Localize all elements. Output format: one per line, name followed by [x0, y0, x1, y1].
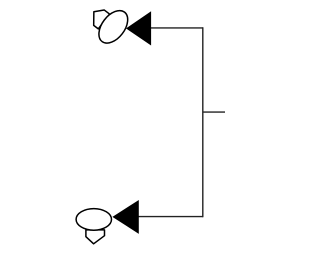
buzzer LS1 (top) horn body, rotated [83, 0, 134, 48]
buzzer LS2 (bottom) horn body [76, 209, 111, 244]
triangle driver of LS2 (bottom) [113, 201, 138, 233]
triangle driver of LS1 (top) [127, 12, 151, 44]
pentagon clapper of LS1 [87, 6, 109, 29]
wire from bottom buzzer to vertical bus [138, 216, 203, 218]
wire vertical bus [202, 27, 204, 217]
ellipse body of LS2 [76, 209, 111, 231]
wire from top buzzer to vertical bus [151, 27, 203, 29]
wire stub at mid bus [203, 111, 225, 113]
ellipse body of LS1 [93, 5, 133, 48]
pentagon clapper of LS2 [86, 230, 105, 244]
